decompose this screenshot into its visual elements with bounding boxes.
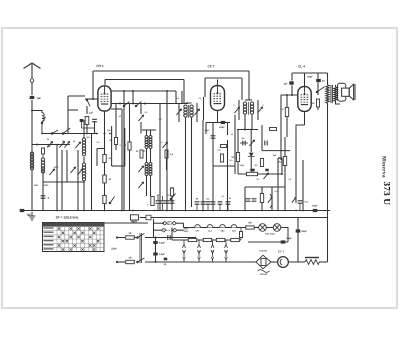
svg-text:240V: 240V <box>167 223 172 226</box>
thermistor bridge <box>256 255 271 269</box>
wire coil to bus <box>42 168 44 211</box>
wire <box>261 187 263 194</box>
junction on bus <box>56 210 58 212</box>
capacitor small <box>251 169 254 172</box>
trimmer <box>49 169 54 175</box>
wire tap c <box>225 260 227 262</box>
wire <box>124 128 126 166</box>
wire <box>244 187 246 211</box>
wire tap <box>183 240 185 245</box>
svg-text:15: 15 <box>73 140 76 143</box>
wire antenna tap <box>32 111 42 114</box>
svg-text:3: 3 <box>48 196 50 200</box>
resistor dropper 4 <box>231 238 240 241</box>
svg-text:50: 50 <box>164 263 167 266</box>
capacitor 50uF <box>281 240 286 243</box>
junction <box>49 144 51 146</box>
wire osc to bus <box>83 182 85 211</box>
capacitor decoupling <box>156 201 161 203</box>
switch <box>86 99 90 106</box>
svg-text:0,1: 0,1 <box>199 97 203 100</box>
wire <box>237 162 239 175</box>
wire <box>297 218 299 223</box>
wire to rail <box>319 261 328 263</box>
winding output transformer primary <box>326 85 329 103</box>
wire frame bottom <box>68 109 78 111</box>
terminal mains N <box>116 261 118 263</box>
junction on bus <box>227 210 229 212</box>
resistor 5000 <box>247 172 258 175</box>
wire tap b <box>212 254 214 258</box>
wire selector row2 <box>154 229 163 231</box>
junction <box>119 103 121 105</box>
wire <box>212 204 214 210</box>
wire down <box>212 123 214 211</box>
coil IF2 secondary <box>250 102 253 114</box>
capacitor antenna series <box>30 96 35 99</box>
junction <box>96 133 98 135</box>
wire tap <box>212 240 214 245</box>
capacitor padding 110 <box>42 148 45 154</box>
table x marks <box>58 227 100 250</box>
coil IF2 primary <box>243 102 246 114</box>
transformer core <box>331 85 333 103</box>
capacitor <box>265 141 267 146</box>
capacitor filter <box>218 202 223 204</box>
trimmer <box>70 167 75 173</box>
trimmer IF2 <box>234 107 239 113</box>
wire <box>86 125 88 134</box>
wire top loop left <box>92 71 94 99</box>
svg-text:0,2µF: 0,2µF <box>159 242 166 245</box>
wire AVC tap <box>237 129 258 131</box>
selector diamond r1b <box>172 221 176 225</box>
trimmer osc b <box>138 182 143 188</box>
wire <box>286 117 288 138</box>
wire <box>150 130 152 136</box>
wire <box>150 148 152 163</box>
rectifier cathode <box>280 259 282 265</box>
resistor 1M <box>114 138 117 145</box>
wire frame top <box>68 95 85 97</box>
wire <box>317 82 319 95</box>
wire <box>227 204 229 210</box>
wire band bus <box>42 133 98 135</box>
wire <box>162 196 164 201</box>
trimmer <box>249 140 254 146</box>
wire <box>280 95 282 160</box>
wire <box>129 104 131 143</box>
resistor 5000 tone <box>317 99 320 107</box>
svg-text:160V: 160V <box>167 220 172 223</box>
potentiometer arrow <box>263 173 268 179</box>
trimmer capacitor <box>64 141 69 147</box>
svg-text:7: 7 <box>147 204 149 207</box>
wire <box>196 204 198 210</box>
switch wave band <box>41 117 45 124</box>
junction on bus <box>166 210 168 212</box>
capacitor <box>243 141 245 146</box>
capacitor filter <box>206 202 211 204</box>
svg-text:30: 30 <box>47 138 50 141</box>
capacitor coupling 1uF <box>289 81 293 84</box>
arrow tap <box>211 245 214 254</box>
capacitor mains 3 <box>168 235 170 240</box>
capacitor grid blob <box>80 119 84 122</box>
wire <box>284 137 286 157</box>
resistor cathode bias 2 <box>103 175 106 183</box>
arrow tap <box>225 245 228 254</box>
svg-text:1µF: 1µF <box>283 83 288 86</box>
table header fill <box>43 223 105 227</box>
wire <box>134 237 137 239</box>
junction osc <box>36 144 38 146</box>
selector diamond r2a <box>162 228 166 232</box>
svg-text:0,2: 0,2 <box>160 141 164 144</box>
wire IF1 down2 <box>191 117 193 207</box>
wire bridge to CY7 <box>271 261 278 263</box>
svg-text:50µF: 50µF <box>312 205 318 208</box>
terminal mains L <box>116 236 118 238</box>
dial lamp 2 <box>273 224 281 232</box>
junction <box>86 133 88 135</box>
wire <box>245 186 285 188</box>
trimmer IF2 b <box>257 107 262 113</box>
svg-text:50: 50 <box>196 198 199 201</box>
wire <box>171 203 173 210</box>
wire rail <box>277 158 279 211</box>
wire osc top link <box>142 129 156 131</box>
svg-text:0,5: 0,5 <box>230 159 234 162</box>
switch osc range <box>170 194 175 200</box>
wire <box>171 196 173 211</box>
wire reservoir <box>297 222 299 262</box>
svg-text:20: 20 <box>322 80 325 83</box>
resistor 0.5M <box>165 150 168 158</box>
wire grid cap lead <box>104 80 106 86</box>
capacitor decoupling <box>165 201 170 203</box>
selector diamond r2b <box>173 228 177 232</box>
svg-text:450: 450 <box>248 222 253 225</box>
junction <box>123 90 125 92</box>
wire long vertical <box>121 109 123 211</box>
wire <box>244 114 246 130</box>
wire <box>237 130 239 153</box>
wire <box>251 114 253 130</box>
wire osc top <box>83 120 85 138</box>
trimmer <box>77 169 82 175</box>
coil IF1 secondary <box>190 105 193 117</box>
capacitor tone <box>298 201 303 203</box>
junction on bus <box>284 210 286 212</box>
junction <box>109 133 111 135</box>
capacitor decoupling <box>160 201 165 203</box>
svg-text:60µF: 60µF <box>219 126 225 129</box>
pot arrow <box>268 197 272 202</box>
capacitor 50uF bus <box>313 209 318 212</box>
wire heater chain <box>184 227 259 229</box>
resistor <box>170 188 173 196</box>
wire mains <box>118 237 125 239</box>
wire dropper row <box>172 239 241 241</box>
switch band <box>135 102 141 107</box>
node <box>166 90 168 92</box>
svg-text:0,1: 0,1 <box>222 195 226 198</box>
junction <box>144 103 146 105</box>
svg-text:3: 3 <box>233 104 235 107</box>
resistor grid leak <box>85 117 89 125</box>
junction <box>291 94 293 96</box>
svg-text:CF 7: CF 7 <box>208 65 215 69</box>
node <box>221 140 223 154</box>
wire IF1 frame right <box>196 103 198 122</box>
wire B+ vertical <box>166 91 168 211</box>
wire <box>271 187 273 211</box>
wire <box>157 203 159 210</box>
heater CH1 <box>231 225 237 228</box>
arrow tap <box>198 245 201 254</box>
svg-text:0,1: 0,1 <box>257 178 261 181</box>
wire jog <box>97 148 105 150</box>
coil antenna secondary <box>41 158 44 173</box>
capacitor wave trap <box>41 196 46 198</box>
table row label smudges <box>44 227 54 249</box>
urdox resistor <box>258 270 270 273</box>
wire <box>115 145 117 151</box>
wire gang left <box>56 145 58 211</box>
wire table link <box>104 222 148 224</box>
wire <box>261 125 263 151</box>
coil antenna primary <box>30 152 33 170</box>
resistor grid leak CL4 <box>285 108 288 117</box>
tube CF7 <box>211 86 225 111</box>
svg-text:0,2µF: 0,2µF <box>159 253 166 256</box>
wire top line down <box>241 78 243 100</box>
svg-text:50: 50 <box>231 156 234 159</box>
capacitor filter <box>195 202 200 204</box>
wire <box>42 154 44 158</box>
wire AVC down <box>248 71 250 100</box>
wire <box>281 158 283 174</box>
wire cathode <box>206 122 230 124</box>
wire <box>291 85 293 95</box>
svg-text:220V: 220V <box>111 248 117 251</box>
wire antenna down to ground bus <box>31 100 33 211</box>
junction on bus <box>212 210 214 212</box>
arrow tap <box>183 245 186 254</box>
wire <box>234 115 236 174</box>
wire <box>291 73 293 81</box>
svg-text:40: 40 <box>109 178 112 181</box>
trimmer osc a <box>138 166 143 172</box>
svg-text:50: 50 <box>229 197 232 200</box>
diode detector <box>248 153 255 156</box>
wire <box>286 95 288 108</box>
coil oscillator grid <box>145 136 148 149</box>
capacitor mains 1 <box>153 241 157 244</box>
wire <box>186 102 192 104</box>
capacitor mains 2 <box>153 253 157 256</box>
junction <box>281 173 283 175</box>
wire <box>111 126 113 166</box>
capacitor <box>246 199 251 201</box>
wire <box>146 148 148 163</box>
wire frame left <box>67 96 69 134</box>
wire IF1 down <box>185 117 187 211</box>
svg-text:0,2: 0,2 <box>305 201 309 204</box>
wire <box>96 149 98 167</box>
capacitor filter <box>211 202 216 204</box>
switch mains pole1 <box>137 234 145 239</box>
svg-text:B+2: B+2 <box>132 221 137 224</box>
resistor bottom <box>151 197 154 206</box>
trimmer <box>162 142 167 148</box>
svg-text:NTC100: NTC100 <box>259 250 268 253</box>
wire <box>299 203 301 210</box>
switch mains pole2 <box>137 258 145 263</box>
junction on bus <box>302 210 304 212</box>
wire IF2 frame right <box>257 100 259 120</box>
coil padder <box>145 163 148 176</box>
selector link dash <box>166 229 173 231</box>
junction on bus <box>202 210 204 212</box>
svg-text:100: 100 <box>197 250 201 253</box>
wire CF7 anode top <box>205 77 242 79</box>
wire <box>157 196 159 201</box>
wire <box>146 130 148 136</box>
rectifier tube CY7 <box>278 257 289 268</box>
svg-text:0,3: 0,3 <box>218 149 222 152</box>
svg-text:0,1: 0,1 <box>145 111 149 114</box>
svg-text:30: 30 <box>143 150 146 153</box>
wire selector row1 out <box>176 222 183 224</box>
junction <box>41 133 43 135</box>
junction on bus <box>185 210 187 212</box>
wire <box>250 130 252 153</box>
wire long vertical pair <box>123 91 125 211</box>
wire IF2 frame left <box>238 100 240 120</box>
resistor dropper 1 <box>188 238 197 241</box>
wire selector to heater <box>183 223 185 227</box>
svg-text:6000: 6000 <box>54 166 59 169</box>
resistor detector load <box>236 153 239 162</box>
capacitor <box>252 199 257 201</box>
wire <box>140 104 142 115</box>
wire IF1 frame left <box>178 103 180 122</box>
svg-text:200: 200 <box>224 250 228 253</box>
wire tube bottom <box>217 111 219 123</box>
switch band contact 2 <box>62 128 70 134</box>
capacitor decoupling <box>170 201 175 203</box>
junction on bus <box>295 210 297 212</box>
speaker <box>338 83 356 101</box>
wire grid top <box>217 80 219 86</box>
wire <box>115 104 117 138</box>
table wave band chart <box>43 223 105 252</box>
wire B+ top <box>292 72 328 74</box>
svg-text:373 U: 373 U <box>382 182 392 206</box>
wire tap b <box>198 254 200 258</box>
wire lower link <box>43 181 85 183</box>
svg-text:5µF: 5µF <box>37 97 42 100</box>
wire <box>41 123 43 134</box>
wire tap <box>198 240 200 245</box>
coil IF1 primary <box>184 105 187 117</box>
coil antenna coupling <box>42 113 44 121</box>
svg-text:CL4: CL4 <box>208 230 213 233</box>
trimmer <box>138 115 143 121</box>
wire AVC link <box>213 165 235 167</box>
node <box>188 100 190 103</box>
wire <box>317 107 319 110</box>
svg-text:250V: 250V <box>184 230 189 233</box>
wire B rail <box>248 241 288 243</box>
junction on bus <box>261 210 263 212</box>
coil padder b <box>149 163 152 176</box>
wire <box>250 157 252 174</box>
wire mains pole2 <box>145 261 256 263</box>
resistor osc <box>140 150 143 158</box>
wire <box>162 203 164 210</box>
wire <box>140 122 142 134</box>
svg-text:1A: 1A <box>128 232 131 235</box>
resistor dropper 3 <box>216 238 225 241</box>
wire selector row2 out <box>177 229 184 231</box>
wire <box>166 196 168 201</box>
tap arrowhead <box>225 257 228 260</box>
capacitor grid <box>92 119 97 121</box>
capacitor bus left <box>20 209 25 212</box>
wire <box>227 123 229 136</box>
wire <box>112 165 125 167</box>
wire lamps to B <box>281 228 288 243</box>
resistor 5000 <box>128 142 131 150</box>
power resistor <box>305 258 319 265</box>
resistor <box>220 154 223 162</box>
wire <box>132 91 134 104</box>
wire mains pole1 <box>145 237 196 239</box>
resistor dropper end <box>240 232 243 238</box>
svg-text:CB2: CB2 <box>220 230 225 233</box>
trimmer IF1 <box>176 109 181 115</box>
capacitor 20uF <box>316 79 321 82</box>
wire <box>202 204 204 210</box>
wire mains <box>118 261 125 263</box>
wire to bus <box>91 134 93 211</box>
tube CL4 <box>298 87 311 112</box>
junction on bus <box>132 210 134 212</box>
wire tap c <box>212 260 214 262</box>
wire <box>81 122 83 128</box>
pot tone <box>292 197 296 202</box>
heater CL4 <box>207 225 213 228</box>
wire tuning row <box>32 144 70 146</box>
wire <box>205 123 207 135</box>
svg-text:10: 10 <box>136 150 139 153</box>
junction <box>155 261 157 263</box>
resistor NTC <box>261 259 266 266</box>
wire tap b <box>183 254 185 258</box>
fuse 1A lower <box>126 260 135 263</box>
wire <box>302 160 304 211</box>
resistor cathode bias 1 <box>103 155 106 163</box>
junction on bus <box>104 210 106 212</box>
wire antenna lead <box>31 82 33 95</box>
junction <box>92 98 94 100</box>
svg-text:1A: 1A <box>128 257 131 260</box>
junction on bus <box>121 210 123 212</box>
svg-text:1µF: 1µF <box>241 137 245 140</box>
